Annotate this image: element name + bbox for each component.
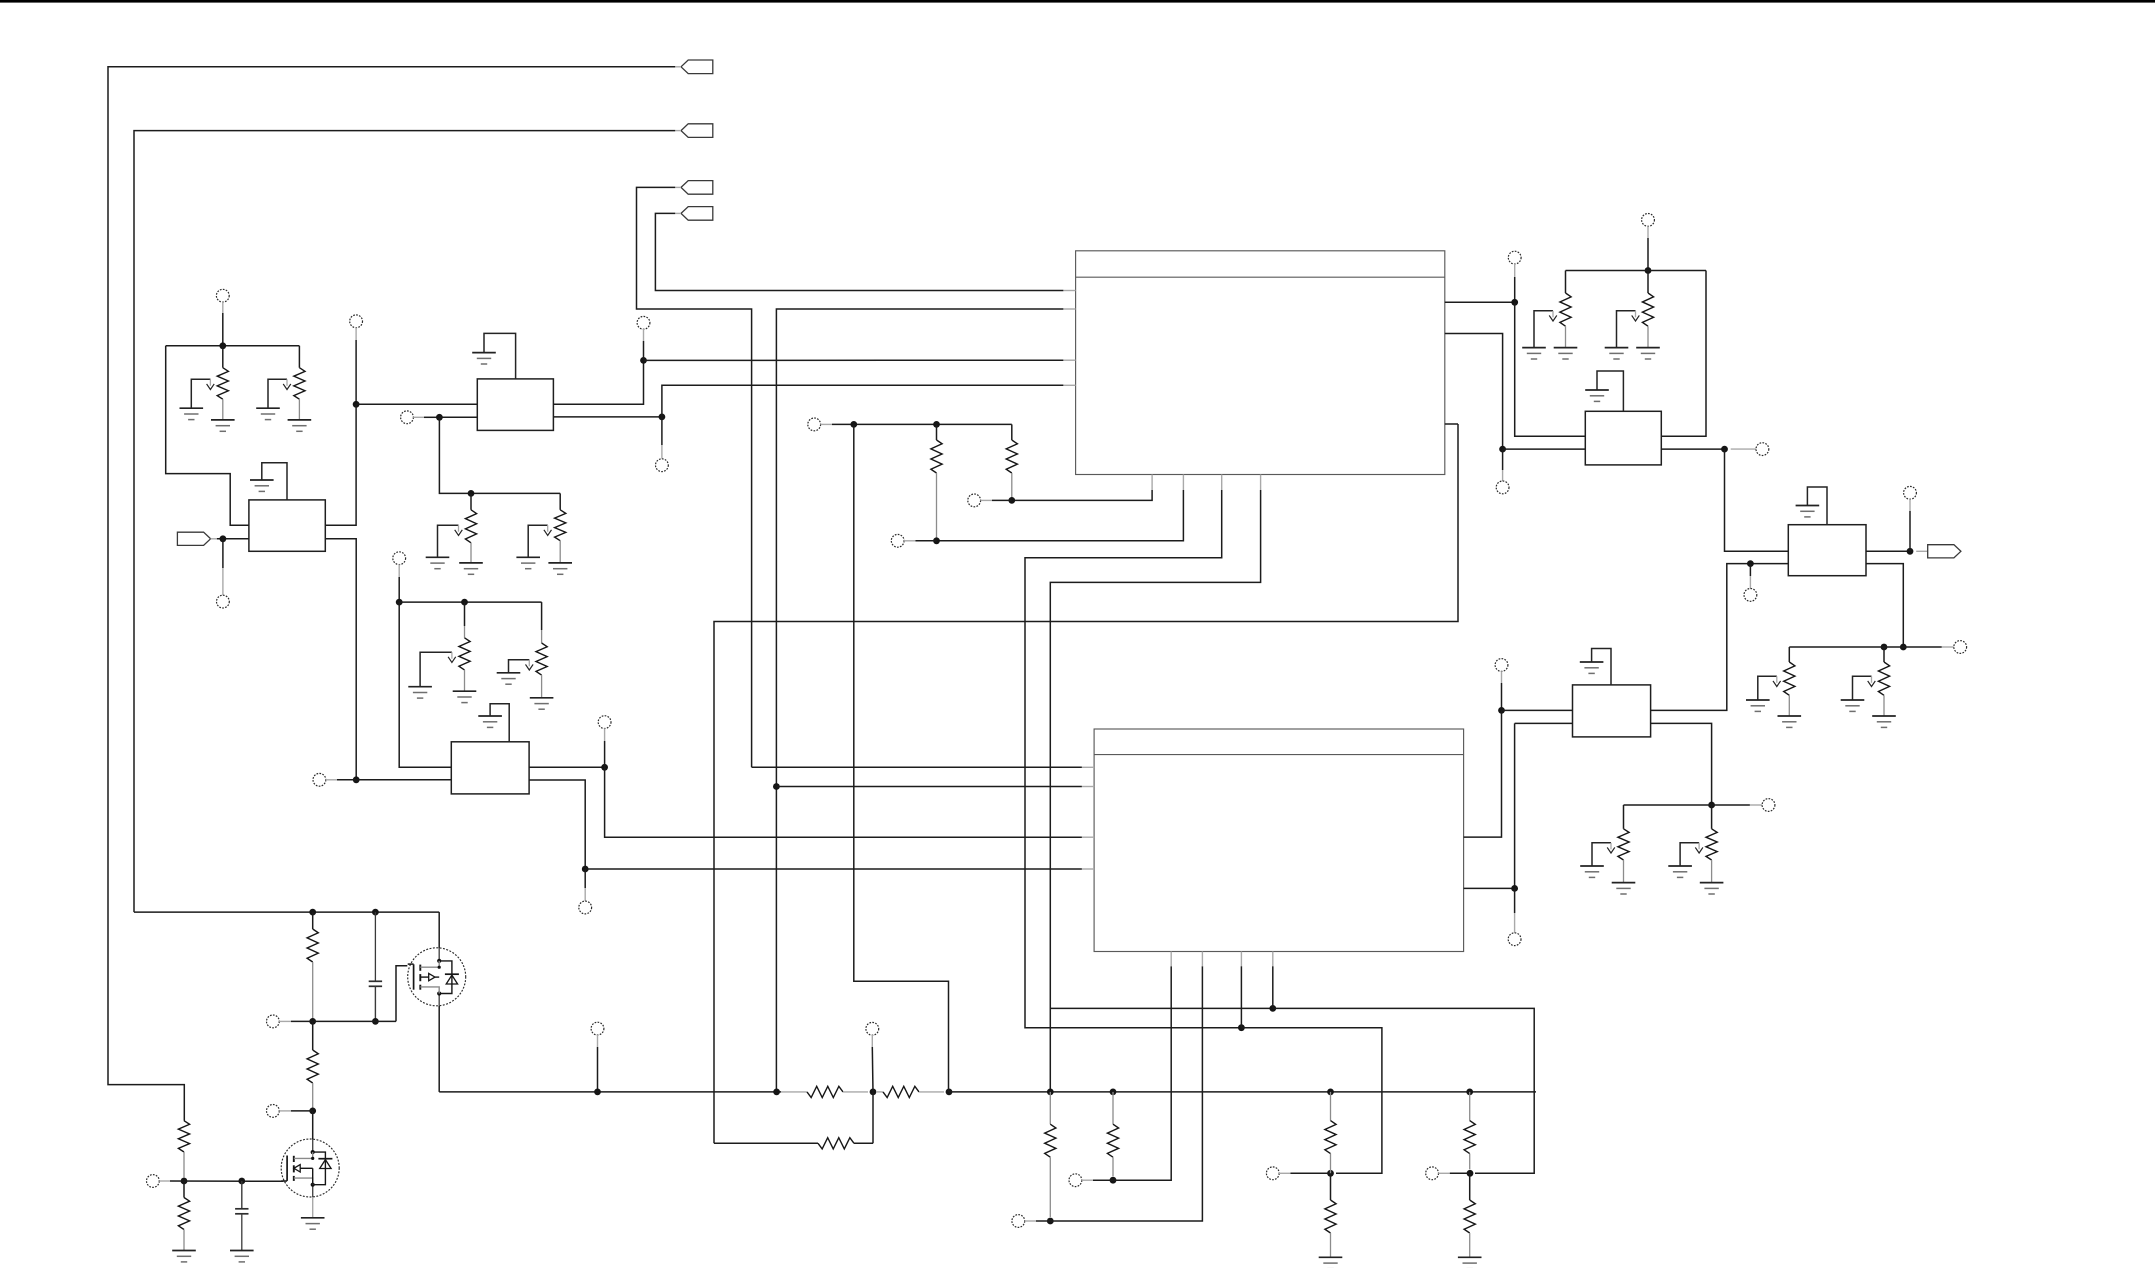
transistor Q1 (PMOS) <box>281 1139 339 1197</box>
ground U1 <box>484 333 516 379</box>
wire <box>1501 683 1503 710</box>
wire <box>1647 238 1649 271</box>
wire U1L pin to divider <box>325 539 356 780</box>
resistor R11 <box>1618 829 1629 860</box>
IC U3 (lower controller) <box>1094 729 1464 952</box>
flag input <box>177 532 210 545</box>
junction <box>1511 299 1518 306</box>
page top border <box>0 0 2155 3</box>
resistor R27 <box>1464 1200 1475 1233</box>
junction <box>870 1089 877 1096</box>
wiper arrow R2 <box>268 379 291 407</box>
wire <box>1445 423 1458 425</box>
wire Q1 gate <box>170 1180 283 1182</box>
wire <box>529 780 585 869</box>
junction <box>219 342 226 349</box>
wire rail <box>1566 270 1707 272</box>
terminal TP30 <box>1426 1167 1439 1180</box>
terminal TP3 <box>401 411 414 424</box>
wire M2 source <box>438 1006 440 1092</box>
IC U2M (regulator) <box>451 742 529 794</box>
terminal TP20 <box>1762 799 1775 812</box>
wire to U1L right pin <box>325 404 356 525</box>
terminal TP22 <box>267 1105 280 1118</box>
wire U2 out2 <box>1445 334 1503 450</box>
terminal TP5 <box>656 459 669 472</box>
resistor R5 <box>459 638 470 670</box>
wiper arrow R5 <box>420 652 456 686</box>
terminal TP24 <box>591 1022 604 1035</box>
terminal TP13 <box>1642 214 1655 227</box>
ground <box>250 480 274 491</box>
IC U2T (ldo) <box>1585 411 1661 465</box>
resistor R21 <box>1006 440 1017 473</box>
wire <box>1502 449 1504 470</box>
wire to U1L pin <box>166 346 249 526</box>
ground <box>1668 866 1692 877</box>
wire <box>439 416 477 418</box>
wire <box>464 602 466 626</box>
wire <box>992 499 1012 501</box>
wire <box>312 912 314 929</box>
ground U2M <box>490 704 509 742</box>
wire flag2 to gate divider rail <box>134 131 675 913</box>
resistor R12 <box>1706 829 1717 860</box>
wire <box>714 1142 818 1144</box>
resistor R8 <box>1642 293 1653 326</box>
flag output <box>1928 545 1961 558</box>
wire to U3 pin4 <box>585 868 1082 870</box>
wire <box>1273 1008 1534 1173</box>
wire rail <box>1789 646 1942 648</box>
junction <box>372 1018 379 1025</box>
wiper arrow R4 <box>528 525 551 557</box>
junction <box>396 599 403 606</box>
wiper arrow R9 <box>1758 676 1781 699</box>
junction <box>1499 446 1506 453</box>
wire M2 drain <box>438 912 440 948</box>
wire <box>604 741 606 767</box>
junction <box>1047 1218 1054 1225</box>
ground <box>211 420 235 431</box>
IC U1L (logic) <box>249 500 325 551</box>
wire <box>1514 277 1516 302</box>
ground <box>1585 390 1609 401</box>
wire rail <box>1624 804 1750 806</box>
junction <box>640 357 647 364</box>
wire <box>470 493 472 509</box>
wire <box>1469 1173 1471 1200</box>
wire <box>1623 805 1625 829</box>
resistor R22 <box>1045 1124 1056 1157</box>
terminal TP17 <box>1744 589 1757 602</box>
IC U4 (output buffer) <box>1788 525 1866 576</box>
resistor R9 <box>1784 662 1795 695</box>
junction <box>309 1108 316 1115</box>
wire U2 pinB down to bottom rail <box>776 309 1063 1092</box>
resistor R26 <box>1464 1121 1475 1154</box>
ground <box>256 408 280 419</box>
terminal TP12 <box>1496 481 1509 494</box>
capacitor C1 <box>369 981 382 986</box>
wire <box>1515 722 1573 724</box>
junction <box>1327 1170 1334 1177</box>
resistor R6 <box>536 643 547 675</box>
wire <box>1749 564 1751 576</box>
flag net 4 <box>681 207 713 221</box>
wire M2 gate <box>396 966 407 1022</box>
wire <box>1883 647 1885 662</box>
ground <box>180 408 204 419</box>
wire U1 out1 <box>553 360 643 404</box>
flag net 3 <box>681 181 713 195</box>
wire <box>661 417 663 445</box>
junction <box>1907 548 1914 555</box>
junction <box>1110 1089 1117 1096</box>
terminal TP23 <box>147 1175 160 1188</box>
wire <box>854 1142 873 1144</box>
ground <box>1554 348 1578 359</box>
wire <box>1330 1173 1332 1200</box>
IC U1 (reference) <box>477 379 553 431</box>
junction <box>372 909 379 916</box>
ground <box>288 420 312 431</box>
resistor R4 <box>555 510 566 541</box>
ground <box>1580 866 1604 877</box>
wire <box>1272 966 1274 1008</box>
junction <box>773 783 780 790</box>
junction <box>1269 1005 1276 1012</box>
resistor R2 <box>294 368 305 400</box>
ground <box>1605 348 1629 359</box>
wire to U2T pin <box>1515 302 1586 436</box>
wire <box>183 1181 185 1198</box>
junction <box>1900 644 1907 651</box>
ground <box>478 716 502 727</box>
wiper arrow R12 <box>1680 843 1703 866</box>
ground U2T <box>1597 371 1623 411</box>
junction <box>946 1089 953 1096</box>
junction <box>1721 446 1728 453</box>
terminal TP11 <box>1508 251 1521 264</box>
junction <box>933 537 940 544</box>
ground U1L <box>262 463 287 500</box>
junction <box>1467 1170 1474 1177</box>
junction <box>1327 1089 1334 1096</box>
junction <box>1238 1024 1245 1031</box>
wire <box>871 1047 874 1092</box>
wire divider rail 2 <box>399 601 541 603</box>
ground <box>1796 506 1820 517</box>
wire <box>1909 511 1911 551</box>
wire U3 pin1 <box>752 766 1082 768</box>
resistor R19 <box>818 1138 854 1149</box>
wire to U4 pin <box>1725 449 1789 551</box>
wire <box>355 340 357 404</box>
wiper arrow R1 <box>191 379 214 407</box>
resistor R18 <box>883 1086 919 1097</box>
resistor R3 <box>465 510 476 543</box>
junction <box>461 599 468 606</box>
junction <box>659 414 666 421</box>
wire U3 right pin1 <box>1464 710 1502 837</box>
terminal TP1 <box>216 289 229 302</box>
ground <box>453 691 477 702</box>
junction <box>309 1018 316 1025</box>
junction <box>309 909 316 916</box>
junction <box>1047 1089 1054 1096</box>
resistor R10 <box>1878 662 1889 695</box>
resistor R14 <box>307 1050 318 1083</box>
wire <box>529 766 605 768</box>
wiper arrow R10 <box>1853 676 1876 699</box>
wire <box>1711 805 1713 829</box>
ground <box>530 698 554 709</box>
wire <box>1291 1172 1331 1174</box>
terminal TP8 <box>313 773 326 786</box>
wire U2 bpin1 <box>1012 490 1152 500</box>
wire <box>241 1181 243 1209</box>
wire <box>1050 1007 1273 1009</box>
wire to U1 pin1 <box>356 403 477 405</box>
wire bottom rail right <box>949 1091 1536 1093</box>
ground <box>1580 662 1604 673</box>
wire flag1 to bottom-left divider <box>108 67 675 1121</box>
ground <box>516 557 540 568</box>
wire <box>1788 647 1790 662</box>
junction <box>1110 1177 1117 1184</box>
terminal TP6 <box>217 595 230 608</box>
terminal TP25 <box>866 1022 879 1035</box>
wire <box>872 1092 874 1143</box>
wire <box>312 1111 314 1139</box>
wire <box>1502 709 1573 711</box>
junction <box>353 776 360 783</box>
junction <box>1498 707 1505 714</box>
wire <box>1866 550 1910 552</box>
wire <box>1866 564 1903 647</box>
wire to U3 bpin1 <box>1113 966 1171 1180</box>
resistor R7 <box>1560 293 1571 326</box>
wire to U4 pin2 <box>1651 564 1789 711</box>
junction <box>220 535 227 542</box>
wiper arrow R11 <box>1592 843 1615 866</box>
wire <box>222 539 224 568</box>
ground <box>230 1251 254 1262</box>
ground U3L <box>1592 649 1611 685</box>
wire U3 right pin2 <box>1464 723 1515 888</box>
junction <box>468 490 475 497</box>
wire <box>217 538 249 540</box>
junction <box>773 1089 780 1096</box>
junction <box>933 421 940 428</box>
wire <box>832 423 1012 425</box>
terminal TP18 <box>1904 486 1917 499</box>
resistor R20 <box>931 440 942 473</box>
wire U2 out1 <box>1445 301 1515 303</box>
ground <box>1746 700 1770 711</box>
IC U3L (ldo2) <box>1573 685 1651 737</box>
terminal TP4 <box>637 316 650 329</box>
wire <box>1661 448 1724 450</box>
wire <box>222 346 224 368</box>
terminal TP7 <box>393 552 406 565</box>
wire to U3 pin3 <box>605 767 1082 837</box>
junction <box>436 414 443 421</box>
wire <box>541 602 543 630</box>
wire <box>398 577 400 602</box>
wire flag4 to U2 pin A <box>655 213 1063 290</box>
resistor R13 <box>307 929 318 962</box>
transistor Q2 (NMOS) <box>408 948 466 1006</box>
wiper arrow R7 <box>1534 311 1557 347</box>
wire U2 bpin3 to U3 bpin3 <box>1025 490 1241 1028</box>
wiper arrow R3 <box>438 525 463 557</box>
wire <box>1450 1172 1470 1174</box>
terminal TP28 <box>891 534 904 547</box>
resistor R23 <box>1107 1124 1118 1157</box>
ground <box>1612 883 1636 894</box>
wire to U2 pinD <box>662 385 1064 417</box>
terminal TP10 <box>579 901 592 914</box>
wire to U2M pin <box>399 602 451 767</box>
wire <box>312 1021 314 1050</box>
wire U2 pin3 feedback <box>714 424 1458 1143</box>
junction <box>1466 1089 1473 1096</box>
ground <box>1872 716 1896 727</box>
wire U3 pin2 <box>776 786 1082 788</box>
wire <box>1647 271 1649 294</box>
ground <box>1458 1257 1482 1268</box>
ground <box>408 687 432 698</box>
wire gate rail <box>134 911 439 913</box>
wire <box>374 986 376 1021</box>
ground <box>497 673 521 684</box>
wire <box>1503 448 1586 450</box>
terminal TP27 <box>968 494 981 507</box>
terminal TP26 <box>808 418 821 431</box>
wire to U2 pinC <box>644 359 1064 361</box>
junction <box>582 866 589 873</box>
terminal TP29 <box>1266 1167 1279 1180</box>
wire <box>936 424 938 440</box>
ground <box>426 557 450 568</box>
ground <box>1778 716 1802 727</box>
terminal TP2 <box>350 315 363 328</box>
IC U2 (upper controller) <box>1076 251 1445 475</box>
wire <box>1093 1179 1113 1181</box>
ground <box>472 353 496 364</box>
junction <box>1881 644 1888 651</box>
wire <box>559 493 561 509</box>
ground <box>1700 883 1724 894</box>
ground <box>459 563 483 574</box>
capacitor C2 <box>235 1209 248 1214</box>
wire flag3 down to U3 pin1 <box>637 187 752 767</box>
ground U4 <box>1807 487 1827 525</box>
ground <box>1319 1257 1343 1268</box>
wire U1 out2 <box>553 416 662 418</box>
junction <box>181 1178 188 1185</box>
wiper arrow R6 <box>509 660 534 673</box>
wire <box>1565 271 1567 294</box>
wire <box>424 416 439 418</box>
wiper arrow R8 <box>1617 311 1640 347</box>
flag net 1 <box>681 60 713 74</box>
junction <box>1708 802 1715 809</box>
junction <box>601 764 608 771</box>
wire to cluster1 rail <box>439 417 560 493</box>
resistor R15 <box>178 1121 189 1152</box>
terminal TP21 <box>267 1015 280 1028</box>
junction <box>353 401 360 408</box>
wire to U3 bpin2 <box>1050 966 1202 1221</box>
wire to output divider <box>1651 723 1712 805</box>
junction <box>1511 885 1518 892</box>
wire <box>337 779 356 781</box>
wire <box>222 313 224 346</box>
junction <box>850 421 857 428</box>
terminal TP32 <box>1069 1174 1082 1187</box>
junction <box>594 1089 601 1096</box>
wire <box>643 341 645 360</box>
resistor R16 <box>178 1198 189 1230</box>
terminal TP9 <box>598 716 611 729</box>
junction <box>1747 560 1754 567</box>
terminal TP16 <box>1508 933 1521 946</box>
junction <box>1008 497 1015 504</box>
resistor R25 <box>1325 1200 1336 1233</box>
wire <box>356 779 451 781</box>
terminal TP14 <box>1756 443 1769 456</box>
ground <box>1636 348 1660 359</box>
ground Q1 <box>301 1218 325 1229</box>
wire <box>1241 1028 1382 1174</box>
junction <box>238 1178 245 1185</box>
wire <box>1011 424 1013 440</box>
terminal TP31 <box>1012 1215 1025 1228</box>
ground <box>1522 348 1546 359</box>
wire <box>1036 1220 1050 1222</box>
wire <box>291 1020 396 1022</box>
wire <box>1240 966 1242 1027</box>
ground <box>548 563 572 574</box>
resistor R17 <box>807 1086 843 1097</box>
ground <box>172 1251 196 1262</box>
terminal TP19 <box>1954 641 1967 654</box>
wire <box>916 540 937 542</box>
wire to U2T right pin <box>1661 271 1706 437</box>
wire <box>597 1047 599 1092</box>
wire to bottom rail <box>854 424 949 1092</box>
wire <box>298 346 300 368</box>
flag net 2 <box>681 124 713 138</box>
terminal TP15 <box>1495 659 1508 672</box>
resistor R24 <box>1325 1121 1336 1154</box>
wire bottom rail <box>439 1091 781 1093</box>
wire divider rail <box>166 345 300 347</box>
wire <box>291 1110 313 1112</box>
wire U2 bpin4 to bottom rail <box>1050 490 1260 1092</box>
wire <box>584 869 586 888</box>
resistor R1 <box>217 368 228 400</box>
junction <box>1645 267 1652 274</box>
wire U2 bpin2 <box>937 490 1184 541</box>
ground <box>1841 700 1865 711</box>
wire <box>1514 888 1516 913</box>
